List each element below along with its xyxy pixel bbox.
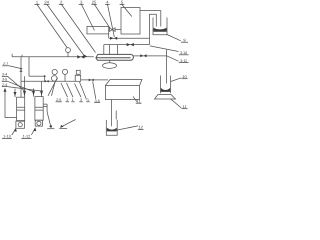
svg-text:3-4: 3-4 bbox=[2, 73, 7, 77]
svg-text:3-10: 3-10 bbox=[180, 51, 187, 55]
svg-text:12: 12 bbox=[138, 125, 143, 130]
svg-text:2-5: 2-5 bbox=[56, 98, 61, 102]
svg-text:10: 10 bbox=[182, 74, 187, 79]
svg-text:3-11: 3-11 bbox=[180, 59, 187, 63]
svg-text:1-12: 1-12 bbox=[23, 135, 31, 139]
svg-text:1-13: 1-13 bbox=[3, 135, 11, 139]
svg-text:3-5: 3-5 bbox=[2, 78, 7, 82]
svg-text:1: 1 bbox=[72, 98, 74, 102]
svg-text:1: 1 bbox=[87, 98, 89, 102]
svg-text:2-7: 2-7 bbox=[3, 62, 8, 66]
svg-text:3: 3 bbox=[66, 98, 68, 102]
svg-text:3: 3 bbox=[80, 98, 82, 102]
svg-text:24: 24 bbox=[44, 0, 49, 5]
svg-text:25: 25 bbox=[92, 0, 97, 5]
svg-text:2-4: 2-4 bbox=[2, 83, 7, 87]
svg-text:3-6: 3-6 bbox=[95, 99, 100, 103]
